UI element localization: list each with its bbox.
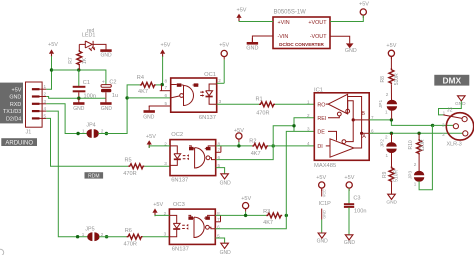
node JP4 pin 2 <box>105 132 108 135</box>
node R3 left <box>244 214 247 217</box>
svg-text:JP2: JP2 <box>380 139 386 148</box>
svg-text:DC/DC CONVERTER: DC/DC CONVERTER <box>279 42 324 47</box>
+5V isolated circle at IC1P <box>316 175 326 191</box>
LED <box>169 215 176 223</box>
wire OC3 pin 6 to R3 net <box>215 215 286 228</box>
ground triangle under IC1P <box>317 233 329 245</box>
svg-text:100n: 100n <box>354 209 366 215</box>
svg-text:1: 1 <box>385 153 388 158</box>
node JP5 pin 1 <box>76 235 79 238</box>
+5V arrow at OC3 LED <box>152 202 163 216</box>
svg-text:5: 5 <box>165 101 168 106</box>
svg-text:2: 2 <box>386 92 389 97</box>
wire R1 to IC1 RO <box>275 103 314 105</box>
pin stubs <box>160 90 171 92</box>
wire JP3 loop to B net <box>419 125 432 189</box>
capacitor C2 1u polarized <box>101 79 118 99</box>
jumper JP5 <box>82 227 104 242</box>
svg-text:DI: DI <box>317 144 322 150</box>
svg-text:7: 7 <box>218 148 221 153</box>
svg-text:+5V: +5V <box>316 175 326 181</box>
transceiver IC1 MAX485 <box>307 88 374 169</box>
svg-text:+5V: +5V <box>219 42 229 48</box>
jumper JP1 <box>378 92 397 120</box>
svg-text:DE: DE <box>317 130 325 136</box>
ground triangle under R9 <box>386 194 397 205</box>
wire +5V to C3 <box>348 189 350 204</box>
ground under C1 <box>73 98 85 112</box>
svg-text:GND: GND <box>9 95 21 101</box>
node OC1 pin 8 <box>161 83 164 86</box>
+5V isolated circle at C3 <box>344 175 354 191</box>
svg-text:+5V: +5V <box>344 175 354 181</box>
svg-text:GND: GND <box>455 101 466 107</box>
svg-text:2: 2 <box>414 162 417 167</box>
wire IC1P GND <box>321 220 323 234</box>
svg-text:GND: GND <box>143 114 155 120</box>
+5V supply arrow at converter input <box>236 8 246 22</box>
wire R6 to OC3 pin 3 <box>143 236 170 238</box>
wire OC1 pin2 to +5V <box>223 60 225 84</box>
svg-text:C2: C2 <box>109 80 116 86</box>
wire JP4 to OC1 output net <box>98 85 140 134</box>
svg-text:1: 1 <box>414 182 417 187</box>
svg-text:2: 2 <box>101 128 104 133</box>
photodiode <box>206 91 213 96</box>
power pins IC1P <box>319 189 332 220</box>
svg-text:JP4: JP4 <box>86 122 95 128</box>
svg-text:R7: R7 <box>68 57 74 64</box>
+5V isolated circle at R3 <box>241 196 251 212</box>
svg-text:1: 1 <box>443 110 446 115</box>
optocoupler OC1 6N137 <box>160 72 225 121</box>
svg-text:7: 7 <box>371 115 374 120</box>
svg-text:3: 3 <box>164 161 167 166</box>
svg-text:TX1/D3: TX1/D3 <box>3 109 21 115</box>
svg-text:+5V: +5V <box>153 202 163 208</box>
svg-text:JP3: JP3 <box>408 171 414 180</box>
svg-text:-VIN: -VIN <box>278 34 289 40</box>
wire +5V to OC2 pin 2 <box>149 146 170 148</box>
svg-text:GND: GND <box>345 48 357 54</box>
svg-text:6N137: 6N137 <box>171 178 188 184</box>
svg-text:4: 4 <box>307 141 310 146</box>
node R2 right / DI net <box>272 144 275 147</box>
svg-text:4K7: 4K7 <box>263 220 273 226</box>
svg-text:3: 3 <box>164 232 167 237</box>
svg-text:2: 2 <box>442 123 445 128</box>
svg-text:OC2: OC2 <box>171 132 183 138</box>
svg-text:GND: GND <box>220 181 232 187</box>
wire -VOUT to isolated ground <box>330 36 350 43</box>
svg-text:MAX485: MAX485 <box>314 163 336 169</box>
ground triangle under C3 <box>344 235 356 246</box>
svg-text:+5V: +5V <box>161 42 171 48</box>
resistor R6 470R <box>124 228 143 247</box>
svg-text:red: red <box>87 28 94 34</box>
svg-text:2: 2 <box>385 135 388 140</box>
DI entry <box>326 145 330 147</box>
wire OC2 pin 8 to R2 <box>216 145 253 147</box>
wire RE DE control rail <box>273 118 314 216</box>
svg-text:GND: GND <box>73 106 85 112</box>
svg-text:1: 1 <box>307 99 310 104</box>
wire +5V to R8 <box>390 56 392 68</box>
LED LED1 red <box>79 28 106 51</box>
svg-text:D2/D4: D2/D4 <box>6 117 21 123</box>
node B to XLR pin 2 <box>431 124 434 127</box>
svg-text:7: 7 <box>217 217 220 222</box>
svg-text:4: 4 <box>44 106 47 111</box>
svg-text:GND: GND <box>246 46 258 52</box>
resistor R8 510R <box>380 68 400 100</box>
svg-text:+5V: +5V <box>48 42 58 48</box>
gate <box>194 217 204 237</box>
bottom left partial mark <box>0 249 4 255</box>
resistor R2 4K7 <box>249 138 268 157</box>
resistor R7 <box>68 44 88 70</box>
svg-text:R6: R6 <box>125 228 132 234</box>
svg-text:470R: 470R <box>124 241 137 247</box>
internal gate <box>184 86 194 106</box>
svg-text:REI: REI <box>317 116 326 122</box>
svg-text:R10: R10 <box>408 140 414 149</box>
node JP5 pin 2 <box>105 235 108 238</box>
svg-text:2: 2 <box>101 232 104 237</box>
svg-text:7: 7 <box>165 85 168 90</box>
svg-text:C1: C1 <box>83 80 90 86</box>
svg-text:GND: GND <box>386 199 397 205</box>
svg-text:GND: GND <box>100 53 112 59</box>
svg-text:GND: GND <box>317 239 329 245</box>
DE entry <box>328 131 337 140</box>
wire GND net J1 pin 2 <box>46 97 106 99</box>
node JP1 bottom <box>390 118 393 121</box>
node JP4 pin 1 <box>76 132 79 135</box>
wire D2 net J1 pin 4 to JP5 <box>46 111 88 237</box>
capacitor C3 100n <box>344 196 367 215</box>
B input bubble <box>346 109 350 113</box>
resistor R3 4K7 <box>263 209 282 226</box>
svg-text:+5V: +5V <box>386 43 396 49</box>
svg-text:GND: GND <box>322 210 326 219</box>
svg-text:RXD: RXD <box>10 102 21 108</box>
wire JP5 to R6 <box>99 236 127 238</box>
svg-text:1: 1 <box>44 84 47 89</box>
node R2 left <box>237 144 240 147</box>
svg-text:R4: R4 <box>137 75 144 81</box>
wire R2 to IC1 DI <box>268 145 314 147</box>
wire RXD J1 pin 3 to JP4 <box>46 104 87 134</box>
RDM label tag <box>85 172 104 179</box>
svg-text:RO: RO <box>317 102 325 108</box>
svg-text:3: 3 <box>307 127 310 132</box>
svg-text:A: A <box>362 134 366 140</box>
RE bubble <box>328 116 339 118</box>
wire +5V circle to R3 row <box>245 212 247 216</box>
wire OC3 pin 8 to R3 <box>215 214 266 216</box>
driver output bubble <box>342 140 346 144</box>
svg-text:4K7: 4K7 <box>251 151 261 157</box>
wire R4 to +5V node <box>156 84 162 86</box>
svg-text:GND: GND <box>101 106 113 112</box>
svg-text:1: 1 <box>82 232 85 237</box>
DMX label tag <box>434 75 469 86</box>
svg-text:1u: 1u <box>112 93 118 99</box>
wire +5V circle to R2 row <box>238 142 240 146</box>
LED <box>170 146 177 154</box>
svg-text:+: + <box>102 79 105 85</box>
node +5V rail <box>50 68 53 71</box>
svg-text:6: 6 <box>165 93 168 98</box>
svg-text:2: 2 <box>44 92 47 97</box>
node R3 right <box>285 214 288 217</box>
wire +VOUT to +5V circle <box>330 15 363 21</box>
ground triangle at XLR shell <box>455 96 466 107</box>
wire C1 top stem <box>78 70 80 86</box>
svg-text:+5V: +5V <box>241 196 251 202</box>
svg-text:+5V: +5V <box>359 2 369 8</box>
ground under C2 <box>100 98 112 112</box>
wire +5V down to OC1 pin 8 <box>162 56 164 84</box>
receiver triangle <box>328 94 347 114</box>
jumper JP3 <box>408 162 425 186</box>
svg-text:GND: GND <box>220 250 232 255</box>
svg-text:4K7: 4K7 <box>138 89 148 95</box>
svg-text:470R: 470R <box>123 171 136 177</box>
svg-text:R5: R5 <box>125 158 132 164</box>
svg-text:+5V: +5V <box>12 87 22 93</box>
wire +5V down to J1 pin 1 <box>46 56 51 89</box>
svg-text:R3: R3 <box>263 209 270 215</box>
jumper JP4 <box>82 122 104 138</box>
gate <box>195 148 205 168</box>
svg-text:3: 3 <box>442 132 445 137</box>
node JP2 top <box>390 132 393 135</box>
resistor R5 470R <box>123 158 144 177</box>
+5V isolated supply circle at +VOUT <box>359 2 369 18</box>
svg-text:IC1: IC1 <box>314 88 323 94</box>
svg-text:1K: 1K <box>82 57 88 64</box>
svg-text:OC1: OC1 <box>204 72 216 78</box>
wire to OC1 pin 6 <box>127 97 171 99</box>
svg-text:RDM: RDM <box>88 174 99 180</box>
resistor R10 120R <box>408 133 426 171</box>
svg-text:2: 2 <box>307 113 310 118</box>
svg-text:3: 3 <box>44 99 47 104</box>
connector J2 XLR-3 <box>442 108 474 148</box>
svg-text:5: 5 <box>44 113 47 118</box>
svg-text:XLR-3: XLR-3 <box>447 142 462 148</box>
ground triangle at OC2 pin 5 <box>216 168 231 187</box>
node R10 top <box>417 132 420 135</box>
wire +5V rail to C1 C2 <box>52 70 106 85</box>
svg-text:+5V: +5V <box>146 134 156 140</box>
+5V supply arrow left <box>48 42 58 57</box>
svg-text:GND: GND <box>344 240 356 246</box>
svg-text:IC1P: IC1P <box>319 201 332 207</box>
+5V isolated circle at R2 <box>234 128 244 142</box>
driver triangle <box>330 139 354 157</box>
ground at OC1 pin 5 <box>143 106 170 120</box>
svg-text:J1: J1 <box>26 130 32 136</box>
svg-text:120R: 120R <box>420 139 426 151</box>
svg-text:C3: C3 <box>353 196 360 202</box>
capacitor C1 100n <box>73 80 96 99</box>
wire OC1 pin 3 to R1 <box>217 103 259 105</box>
wire C3 to ground <box>348 207 350 234</box>
A path <box>348 97 362 134</box>
svg-text:3: 3 <box>219 99 222 104</box>
svg-text:J2: J2 <box>447 108 453 114</box>
svg-text:R1: R1 <box>256 97 263 103</box>
svg-text:ARDUINO: ARDUINO <box>5 141 33 147</box>
optocoupler OC2 6N137 <box>164 132 221 183</box>
ground triangle at OC3 pin 5 <box>215 238 231 255</box>
wire R5 to OC2 pin 3 <box>144 164 170 167</box>
svg-text:-VOUT: -VOUT <box>310 34 327 40</box>
svg-text:JP1: JP1 <box>378 100 384 109</box>
svg-text:DMX: DMX <box>442 76 461 86</box>
node B <box>352 118 355 121</box>
wire +5V to OC3 pin 2 <box>155 214 169 217</box>
svg-text:JP5: JP5 <box>85 227 94 233</box>
jumper JP2 <box>380 133 397 166</box>
ARDUINO label tag <box>1 138 37 146</box>
svg-text:+VOUT: +VOUT <box>308 20 327 26</box>
node RE DE split <box>292 124 295 127</box>
svg-text:6: 6 <box>371 128 374 133</box>
wire IC1 A to XLR pin 3 <box>369 132 463 134</box>
resistor R4 4K7 <box>137 75 156 95</box>
svg-text:+5V: +5V <box>237 8 247 14</box>
wire B to XLR pin 2 <box>433 124 454 126</box>
svg-text:+5V: +5V <box>234 128 244 134</box>
svg-text:R2: R2 <box>249 138 256 144</box>
svg-text:6N137: 6N137 <box>172 247 189 253</box>
svg-text:B0505S-1W: B0505S-1W <box>274 10 307 16</box>
svg-text:1: 1 <box>82 128 85 133</box>
ground under LED1 <box>100 45 112 58</box>
wire XLR pin1 to ground <box>439 101 462 115</box>
svg-text:2: 2 <box>218 78 221 83</box>
node C1 ground <box>77 97 80 100</box>
svg-text:510R: 510R <box>394 170 400 182</box>
optocoupler OC3 6N137 <box>164 202 221 253</box>
wire IC1 B to JP1 <box>369 120 432 126</box>
+5V supply arrow above OC1 <box>160 42 171 57</box>
svg-text:6N137: 6N137 <box>199 115 216 121</box>
svg-text:OC3: OC3 <box>173 202 185 208</box>
svg-text:R9: R9 <box>382 171 388 178</box>
svg-text:510R: 510R <box>394 73 400 85</box>
svg-text:1: 1 <box>385 110 388 115</box>
dc/dc converter U2 B0505S-1W <box>273 10 330 49</box>
svg-text:+VIN: +VIN <box>278 20 290 26</box>
node OC1 pin 6 branch <box>125 96 128 99</box>
svg-text:8: 8 <box>165 79 168 84</box>
+5V isolated circle at OC1 pin 2 <box>219 42 229 59</box>
wire OC2 pin 6 to DI net <box>216 146 274 160</box>
ground triangle at -VOUT <box>345 43 357 54</box>
svg-text:VCC: VCC <box>322 189 326 197</box>
svg-text:R8: R8 <box>380 76 386 83</box>
connector J1 <box>26 82 47 136</box>
arduino pin header labels box <box>0 83 23 124</box>
+5V arrow at OC2 LED <box>146 134 156 148</box>
+5V isolated circle above R8 <box>386 43 396 59</box>
resistor R9 510R <box>382 166 400 194</box>
resistor R1 470R <box>256 97 276 117</box>
svg-text:470R: 470R <box>256 111 269 117</box>
node R7 bottom <box>77 68 80 71</box>
wire TX net J1 pin 5 to R5 <box>46 118 128 166</box>
wire +5V to +VIN <box>239 21 273 23</box>
ground GND at converter -VIN <box>246 36 273 52</box>
